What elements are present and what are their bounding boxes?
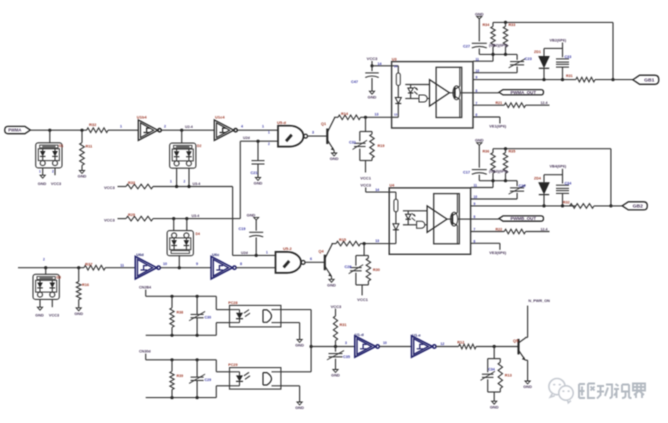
svg-text:U3-4: U3-4: [193, 182, 201, 186]
svg-text:7: 7: [474, 228, 476, 232]
svg-text:6: 6: [310, 257, 312, 261]
svg-text:9: 9: [474, 202, 476, 206]
svg-text:ZD4: ZD4: [534, 177, 542, 181]
svg-text:PC28: PC28: [228, 301, 237, 305]
svg-text:U1b4: U1b4: [137, 114, 148, 119]
svg-text:U5-2: U5-2: [283, 246, 292, 251]
svg-text:D4: D4: [196, 232, 200, 236]
svg-text:U3-4: U3-4: [192, 214, 200, 218]
svg-text:14: 14: [378, 62, 382, 66]
svg-text:C35: C35: [343, 355, 350, 359]
svg-text:GND: GND: [475, 138, 484, 143]
svg-text:4: 4: [241, 125, 243, 129]
svg-text:14: 14: [394, 64, 398, 68]
svg-text:R30: R30: [373, 268, 380, 272]
svg-text:13: 13: [394, 113, 398, 117]
svg-text:GND: GND: [254, 181, 263, 186]
svg-text:1: 1: [120, 125, 122, 129]
svg-text:R33: R33: [128, 181, 135, 185]
svg-text:PC29: PC29: [228, 363, 237, 367]
svg-text:C34: C34: [565, 182, 573, 186]
svg-text:VCC3: VCC3: [104, 217, 115, 222]
svg-text:R16: R16: [82, 283, 89, 287]
svg-text:6: 6: [476, 113, 478, 117]
svg-text:11: 11: [120, 263, 124, 267]
svg-text:GND: GND: [475, 11, 484, 16]
svg-text:GND: GND: [74, 311, 83, 316]
svg-text:C30: C30: [205, 316, 212, 320]
svg-text:VCC1: VCC1: [360, 175, 371, 180]
svg-text:VE1(6P6): VE1(6P6): [489, 124, 507, 129]
svg-text:C28: C28: [345, 265, 352, 269]
svg-text:D3: D3: [57, 276, 61, 280]
svg-text:14: 14: [375, 188, 379, 192]
svg-text:R37: R37: [85, 261, 93, 266]
svg-text:VCC3: VCC3: [49, 314, 59, 318]
svg-text:C29: C29: [205, 378, 212, 382]
svg-text:C23: C23: [525, 57, 532, 61]
svg-text:10: 10: [163, 262, 167, 266]
svg-text:1: 1: [262, 125, 264, 129]
svg-text:U2-4: U2-4: [185, 125, 193, 129]
svg-text:1: 1: [266, 251, 268, 255]
svg-text:2: 2: [43, 257, 45, 261]
svg-text:ZD1: ZD1: [534, 50, 541, 54]
svg-text:2: 2: [184, 179, 186, 183]
svg-text:CN30d: CN30d: [139, 350, 151, 354]
svg-text:GND: GND: [78, 174, 87, 179]
svg-text:R21: R21: [496, 101, 503, 105]
svg-text:GND: GND: [330, 156, 339, 161]
svg-text:VCC3: VCC3: [367, 56, 378, 61]
svg-text:VB2(6P6): VB2(6P6): [550, 38, 567, 42]
svg-text:11: 11: [474, 184, 478, 188]
svg-text:R32: R32: [89, 122, 97, 127]
svg-text:GND: GND: [35, 314, 44, 318]
svg-text:R14: R14: [341, 112, 349, 116]
svg-text:12: 12: [440, 342, 444, 346]
svg-text:C34: C34: [488, 367, 495, 371]
svg-text:U1-e: U1-e: [412, 333, 421, 338]
svg-text:VCC3: VCC3: [51, 182, 61, 186]
svg-text:C33: C33: [565, 55, 572, 59]
svg-text:GB2: GB2: [633, 203, 644, 208]
svg-text:C31: C31: [349, 141, 356, 145]
svg-text:R32: R32: [563, 201, 570, 205]
svg-text:VB4(6P6): VB4(6P6): [550, 165, 567, 169]
svg-text:GB1: GB1: [644, 77, 655, 82]
svg-text:R33: R33: [509, 23, 516, 27]
svg-text:C47: C47: [351, 80, 358, 84]
svg-text:VCC3: VCC3: [360, 183, 371, 188]
svg-text:R36: R36: [483, 149, 490, 153]
svg-text:C19: C19: [239, 227, 246, 231]
svg-text:8: 8: [476, 89, 478, 93]
svg-text:U6d: U6d: [136, 252, 144, 257]
svg-text:GND: GND: [368, 94, 377, 99]
svg-text:10: 10: [383, 341, 387, 345]
svg-text:C26: C26: [519, 184, 526, 188]
svg-text:R11: R11: [86, 145, 93, 149]
svg-text:GND: GND: [327, 283, 336, 288]
svg-text:3: 3: [312, 131, 314, 135]
svg-text:13: 13: [375, 113, 379, 117]
svg-text:1: 1: [268, 130, 270, 134]
svg-text:VCC3: VCC3: [104, 185, 115, 190]
svg-text:C17: C17: [463, 171, 470, 175]
svg-text:R31: R31: [340, 323, 347, 327]
svg-text:R35: R35: [509, 149, 516, 153]
svg-text:R31: R31: [566, 74, 573, 78]
svg-text:6: 6: [474, 239, 476, 243]
svg-text:12.4: 12.4: [541, 227, 548, 231]
svg-text:10: 10: [476, 69, 480, 73]
svg-text:8: 8: [240, 262, 242, 266]
svg-text:VCC3: VCC3: [331, 304, 342, 309]
svg-text:PWMA_OUT: PWMA_OUT: [510, 90, 536, 95]
svg-text:2: 2: [164, 125, 166, 129]
svg-text:GND: GND: [247, 212, 256, 217]
svg-text:GND: GND: [295, 405, 304, 410]
svg-text:VE3(6P6): VE3(6P6): [489, 250, 507, 255]
svg-text:R39: R39: [177, 374, 184, 378]
svg-text:1: 1: [170, 179, 172, 183]
svg-text:Q5: Q5: [513, 339, 518, 343]
svg-text:U5-d: U5-d: [277, 120, 286, 125]
svg-text:C21: C21: [251, 171, 258, 175]
svg-text:N_PWR_ON: N_PWR_ON: [528, 299, 550, 303]
svg-text:GND: GND: [38, 182, 47, 186]
svg-text:VCC1: VCC1: [357, 297, 368, 302]
svg-text:2: 2: [268, 142, 270, 146]
svg-text:R19: R19: [378, 144, 385, 148]
svg-text:R13: R13: [505, 373, 512, 377]
svg-text:12.4: 12.4: [541, 101, 548, 105]
svg-text:U2d: U2d: [241, 251, 248, 255]
svg-text:11: 11: [476, 57, 480, 61]
svg-text:Q1: Q1: [321, 122, 326, 126]
svg-text:GND: GND: [523, 384, 532, 389]
svg-text:PWMB_OUT: PWMB_OUT: [510, 216, 536, 221]
svg-text:2: 2: [52, 170, 54, 174]
svg-text:R34: R34: [483, 23, 491, 27]
svg-text:CN2B4: CN2B4: [139, 286, 152, 290]
svg-text:GND: GND: [295, 343, 304, 348]
svg-text:U3: U3: [392, 57, 397, 61]
svg-text:R38: R38: [177, 310, 184, 314]
svg-text:10: 10: [474, 195, 478, 199]
svg-text:3: 3: [345, 341, 347, 345]
svg-text:U2d: U2d: [243, 136, 250, 140]
svg-text:D1: D1: [59, 144, 63, 148]
svg-text:1: 1: [39, 170, 41, 174]
svg-text:R22: R22: [496, 227, 503, 231]
svg-text:U1-d: U1-d: [355, 332, 364, 337]
svg-text:(GB3)(6P6): (GB3)(6P6): [489, 170, 508, 174]
svg-text:9: 9: [476, 76, 478, 80]
svg-text:C27: C27: [463, 44, 470, 48]
svg-text:GND: GND: [490, 404, 499, 409]
svg-text:8: 8: [474, 215, 476, 219]
svg-text:U6c: U6c: [212, 252, 220, 257]
svg-text:(GB2)(6P6): (GB2)(6P6): [489, 43, 508, 47]
svg-text:D2: D2: [197, 144, 201, 148]
svg-text:R29: R29: [128, 213, 135, 217]
svg-text:Q4: Q4: [319, 250, 325, 254]
svg-text:PWMA: PWMA: [8, 128, 21, 133]
svg-text:9: 9: [196, 262, 198, 266]
svg-text:R15: R15: [339, 238, 346, 242]
svg-text:7: 7: [476, 101, 478, 105]
svg-text:R12: R12: [457, 340, 464, 344]
svg-text:U1c4: U1c4: [215, 114, 225, 119]
svg-text:13: 13: [375, 239, 379, 243]
svg-text:GND: GND: [331, 373, 340, 378]
